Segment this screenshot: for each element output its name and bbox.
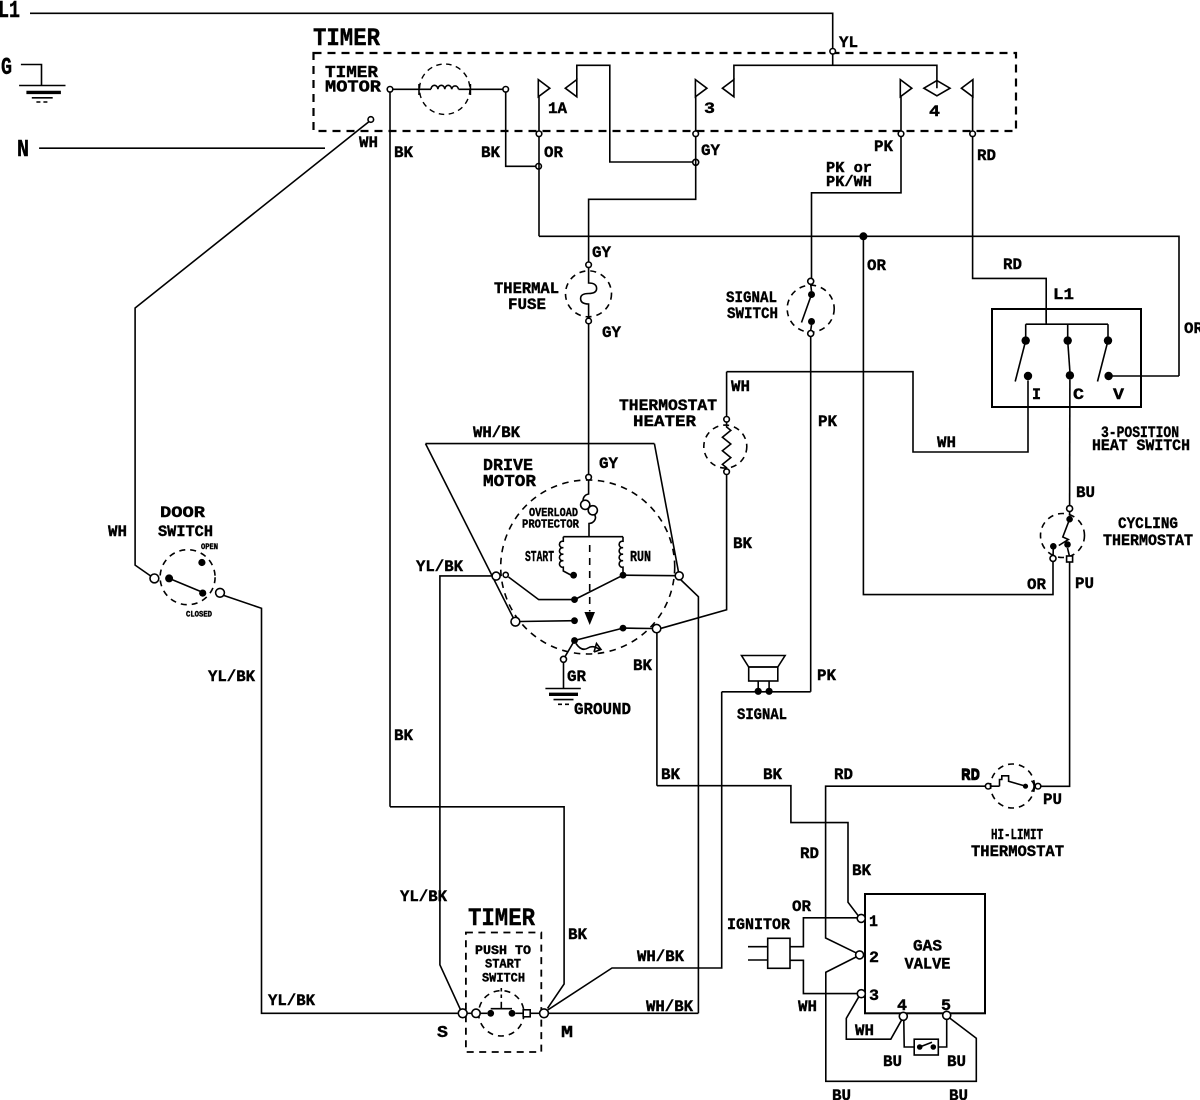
svg-text:WH/BK: WH/BK [637,948,684,966]
wire PU cycling thermostat to hi-limit [1041,562,1070,786]
svg-text:IGNITOR: IGNITOR [727,916,790,934]
ignitor [748,938,790,968]
wire GY from thermal fuse to drive motor [588,324,590,475]
wire BK timer motor bottom run to M [390,807,564,1009]
svg-text:GROUND: GROUND [574,700,631,719]
wire WH/BK over drive motor [426,443,655,445]
wire YL/BK from motor [440,576,492,1011]
svg-text:SWITCH: SWITCH [727,305,778,323]
wire BK motor to gas valve pin 1 and hi-limit [657,786,859,917]
drive motor [501,480,675,654]
timer (bottom) push to start switch [468,904,535,933]
wire L1 rail [30,13,833,49]
svg-text:PU: PU [1075,575,1094,593]
svg-text:GY: GY [602,324,621,342]
start winding [559,537,570,575]
wire from 1A right contact to switch 3 left contact [577,65,693,162]
push to start switch contacts [458,988,548,1036]
svg-text:DOOR: DOOR [160,504,205,522]
timer motor coil [387,64,508,114]
svg-text:OR: OR [792,898,811,916]
heater squiggle with arrow [576,644,601,653]
wire WH jumper pin 3 to pin 4 [846,997,902,1039]
svg-text:C: C [1073,386,1084,404]
node start winding contact [570,572,577,579]
ground symbol at motor [545,662,580,704]
svg-text:HI-LIMIT: HI-LIMIT [991,827,1043,844]
node gas valve pin 1 [857,914,865,922]
wire OR bus horizontal [539,236,1179,376]
wire WH diagonal from timer motor to door switch [135,121,369,577]
svg-text:TIMER: TIMER [468,904,535,933]
svg-text:RD: RD [800,845,819,863]
svg-text:I: I [1032,386,1041,404]
node N [17,137,29,164]
timer motor M1 label [325,63,381,97]
svg-text:TIMER: TIMER [313,24,380,53]
svg-text:4: 4 [897,997,907,1015]
wire GY from 3 left contact down to thermal fuse [589,97,696,262]
wire OR from 1A left contact [538,97,540,237]
node gas valve pin 2 [856,951,864,959]
svg-text:L1: L1 [1053,286,1074,304]
wire WH/BK right diagonal to run winding terminal [654,444,678,572]
wire V contact to OR riser [1109,375,1179,377]
svg-text:WH/BK: WH/BK [473,424,520,442]
svg-text:WH: WH [731,378,750,396]
svg-text:GY: GY [592,244,611,262]
node OR junction [859,232,867,240]
3-position heat switch U2 [992,309,1141,407]
svg-text:OR: OR [867,257,886,275]
svg-text:START: START [525,549,554,566]
node WH terminal of timer motor [368,117,374,123]
svg-text:BU: BU [949,1087,968,1100]
svg-text:PK: PK [818,413,837,431]
wire run contact to WH/BK terminal [623,574,676,577]
svg-text:WH: WH [937,434,956,452]
wire OR ignitor to pin 1 [790,918,857,947]
wire lower contact pair [520,620,575,623]
wire RD hi-limit to gas valve pin 2 [826,786,986,953]
wire WH/BK from M diagonal to signal riser [548,692,722,1010]
node lower-left motor switch terminal [511,617,520,626]
run winding [619,537,623,572]
centrifugal switch arm upper [575,575,624,599]
svg-text:PK/WH: PK/WH [826,174,872,191]
svg-text:OR: OR [1184,320,1200,338]
mechanical link dashed arrow [584,545,595,625]
svg-text:2: 2 [869,949,879,967]
svg-text:3: 3 [869,987,879,1005]
node G [1,55,12,82]
svg-text:SWITCH: SWITCH [158,523,213,541]
svg-text:YL/BK: YL/BK [268,992,315,1010]
wire PK from 4 left contact down to signal switch [812,97,902,278]
overload protector [581,480,598,537]
node gas valve pin 5 [943,1011,951,1019]
svg-text:OR: OR [544,144,563,162]
wire G lead [21,65,42,86]
wire BK run terminal down [681,580,699,1014]
node junction circle on OR line [536,164,542,170]
svg-text:WH: WH [855,1022,874,1040]
svg-text:BU: BU [947,1053,966,1071]
svg-text:RD: RD [1003,256,1022,274]
svg-text:BU: BU [883,1053,902,1071]
svg-text:OPEN: OPEN [201,543,218,552]
svg-text:1A: 1A [548,100,567,118]
svg-text:YL/BK: YL/BK [208,668,255,686]
svg-text:SWITCH: SWITCH [482,972,525,986]
svg-text:WH: WH [798,998,817,1016]
node GY terminal circle [693,159,699,165]
wire OR branch down to cycling thermostat [863,236,1053,594]
svg-text:THERMOSTAT: THERMOSTAT [971,843,1064,861]
wire WH from thermostat heater to heat switch I contact [727,372,1028,452]
svg-text:YL: YL [839,34,858,52]
svg-text:FUSE: FUSE [508,296,546,314]
svg-text:BK: BK [394,144,413,162]
svg-text:CYCLING: CYCLING [1118,515,1178,533]
svg-text:M: M [561,1024,573,1043]
svg-text:S: S [437,1024,448,1043]
wire from upper arm to YL/BK terminals [509,577,575,600]
svg-text:SIGNAL: SIGNAL [737,706,787,724]
wire N rail [39,147,325,149]
svg-text:WH: WH [108,523,127,541]
hi-limit thermostat [985,764,1040,808]
svg-text:PUSH TO: PUSH TO [475,944,532,958]
wire YL/BK from door switch to push-to-start S [224,596,458,1014]
svg-text:GAS: GAS [913,938,942,956]
node gas valve pin 3 [857,990,865,998]
svg-text:GY: GY [599,455,618,473]
svg-text:BK: BK [481,144,500,162]
svg-text:V: V [1113,386,1124,404]
svg-text:RUN: RUN [630,549,651,566]
timer TIMER dashed enclosure [314,53,1017,131]
wire from 3 right contact along top to switch 4 [734,65,937,88]
node gas valve pin 4 [899,1012,907,1020]
svg-text:4: 4 [929,103,940,121]
wire BK thermostat heater to motor switch [660,475,727,629]
cycling thermostat [1041,506,1085,562]
svg-text:OR: OR [1027,576,1046,594]
svg-text:START: START [485,958,521,972]
gas valve [865,894,985,1013]
svg-text:BK: BK [763,766,782,784]
node run winding contact [620,572,627,579]
ground G symbol [19,86,65,103]
wire BK from motor lower terminal down [656,633,658,786]
thermostat heater [704,372,747,475]
svg-text:PK: PK [874,138,893,156]
svg-text:PU: PU [1043,791,1062,809]
svg-text:RD: RD [961,766,980,784]
node GY terminal on motor [586,474,592,480]
wire WH/BK left diagonal to motor switch [426,444,514,619]
wire GR to ground [565,641,575,657]
switch contact 3 [695,80,734,97]
signal [742,656,786,695]
svg-text:5: 5 [941,997,951,1015]
wire RD from 4 right contact down to heat switch [973,97,1047,322]
node YL terminal on timer box edge [830,49,836,55]
switch contact 4 [900,80,973,97]
svg-text:1: 1 [869,913,878,931]
svg-text:MOTOR: MOTOR [483,472,536,491]
svg-text:HEATER: HEATER [633,413,696,431]
signal switch [787,278,834,336]
svg-text:GY: GY [701,142,720,160]
thermal fuse [566,262,612,324]
svg-text:MOTOR: MOTOR [325,78,381,97]
svg-text:BK: BK [733,535,752,553]
wire BU gas valve pin 2 loop to pin 5 [826,957,977,1081]
wire WH/BK from M to run winding riser [548,1012,698,1014]
wire BU from C contact to cycling thermostat [1069,380,1071,506]
svg-text:N: N [17,137,29,164]
svg-text:RD: RD [834,766,853,784]
wire WH ignitor to pin 3 [790,960,857,993]
svg-text:BK: BK [661,766,680,784]
svg-text:PK: PK [817,667,836,685]
svg-text:THERMOSTAT: THERMOSTAT [1103,532,1193,550]
svg-text:3: 3 [704,100,715,118]
node lower-right contact [620,625,627,632]
svg-text:L1: L1 [0,0,20,25]
svg-text:G: G [1,55,12,82]
wire BK timer motor right lead [506,92,536,166]
motor winding bus [563,536,623,538]
wire BK timer motor left lead [389,92,391,807]
flame switch between pins 4 and 5 [904,1019,947,1055]
node L1 [0,0,20,25]
svg-text:BU: BU [832,1087,851,1100]
svg-text:VALVE: VALVE [905,956,951,974]
centrifugal switch arm lower [575,628,624,640]
svg-text:PROTECTOR: PROTECTOR [522,518,580,532]
switch contact 1A [538,80,577,97]
svg-text:BK: BK [394,727,413,745]
svg-text:BU: BU [1076,484,1095,502]
wire PK from signal switch down to signal [810,337,812,692]
svg-text:WH/BK: WH/BK [646,998,693,1016]
svg-text:BK: BK [852,862,871,880]
svg-text:YL/BK: YL/BK [400,888,447,906]
svg-text:GR: GR [567,668,586,686]
svg-text:HEAT SWITCH: HEAT SWITCH [1092,437,1190,455]
svg-text:CLOSED: CLOSED [186,611,212,620]
svg-text:RD: RD [977,147,996,165]
door switch [150,550,224,605]
svg-text:WH: WH [359,134,378,152]
svg-text:YL/BK: YL/BK [416,558,463,576]
wire signal bus [722,691,811,693]
svg-text:BK: BK [568,926,587,944]
svg-text:BK: BK [633,657,652,675]
